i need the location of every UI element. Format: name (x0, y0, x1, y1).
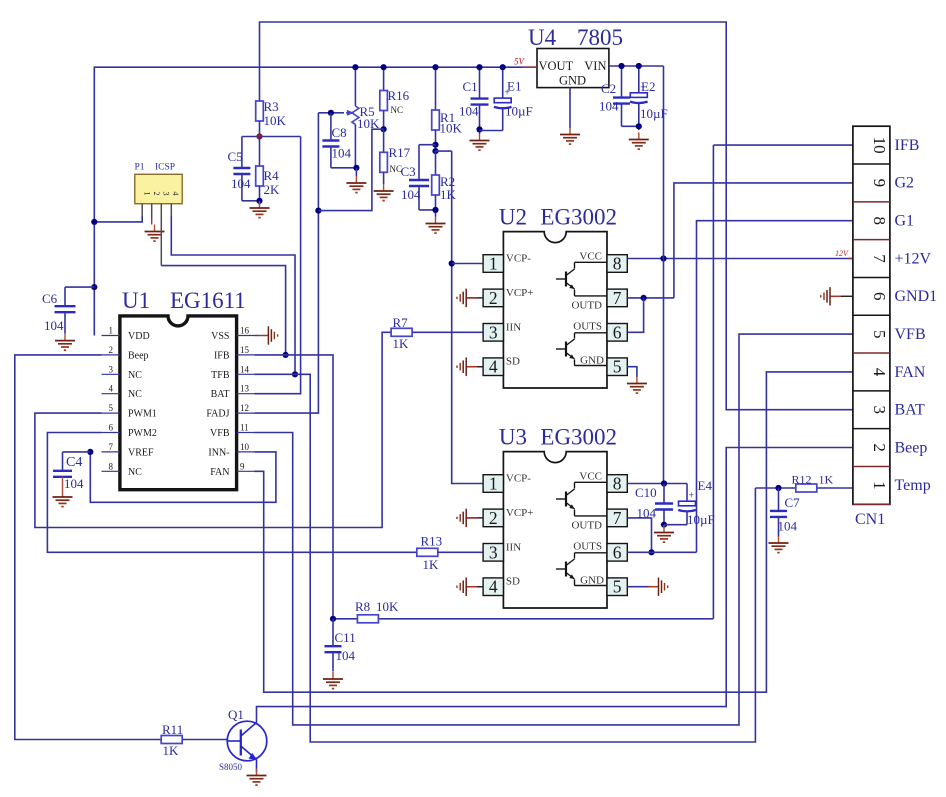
wire VCP- net (449, 151, 484, 483)
svg-text:OUTS: OUTS (573, 321, 602, 333)
capacitor E1 (480, 67, 533, 130)
svg-text:CN1: CN1 (855, 511, 885, 528)
svg-text:C8: C8 (332, 125, 347, 140)
svg-text:Beep: Beep (128, 350, 149, 361)
svg-text:FADJ: FADJ (206, 409, 229, 420)
svg-text:104: 104 (44, 318, 64, 333)
ground C10 (654, 526, 674, 543)
capacitor E2 (630, 63, 668, 130)
svg-text:4: 4 (109, 384, 114, 394)
pin 7 U3 (607, 508, 627, 528)
pin 6 U1 (102, 423, 157, 440)
pin 5 CN1 (870, 330, 889, 339)
wire +12V rail (627, 66, 853, 484)
svg-text:R16: R16 (388, 88, 410, 103)
label Beep (895, 439, 928, 456)
wire U3 OUTD/OUTS tie + G1 (627, 221, 853, 556)
connector CN1 (853, 126, 890, 528)
svg-text:E4: E4 (698, 478, 713, 493)
svg-text:GND: GND (580, 575, 604, 587)
capacitor C8 (322, 110, 359, 176)
svg-text:G2: G2 (895, 175, 915, 192)
svg-text:VCC: VCC (579, 251, 602, 263)
capacitor C5 (228, 137, 260, 201)
svg-text:4: 4 (171, 192, 180, 196)
svg-text:BAT: BAT (211, 389, 230, 400)
svg-text:E2: E2 (641, 79, 655, 94)
pin 2 CN1 (870, 443, 889, 452)
pin 1 U3 (483, 474, 503, 494)
svg-text:10K: 10K (376, 599, 399, 614)
capacitor C2 (599, 63, 639, 126)
node 5V rail joints (352, 64, 506, 70)
voltage regulator U4 7805 (528, 25, 623, 88)
wire 12V red stub (849, 258, 853, 260)
svg-text:+12V: +12V (895, 250, 932, 267)
ground R17 (374, 184, 394, 201)
svg-text:R12: R12 (792, 472, 812, 486)
pin 10 CN1 (870, 137, 889, 154)
svg-text:NC: NC (128, 370, 142, 381)
ground C2/E2 (629, 133, 649, 150)
capacitor C11 (325, 619, 356, 672)
svg-text:10: 10 (240, 442, 250, 452)
svg-text:9: 9 (240, 461, 245, 471)
pin 4 U2 (483, 357, 503, 377)
pin names U2 (506, 251, 604, 368)
svg-text:GND: GND (559, 74, 586, 88)
ground C1/E1 (470, 134, 490, 151)
svg-text:7: 7 (613, 508, 622, 528)
svg-text:+: + (689, 491, 695, 502)
svg-text:7: 7 (109, 442, 114, 452)
svg-text:VCP+: VCP+ (506, 287, 534, 299)
svg-text:5: 5 (870, 330, 889, 339)
wire U2 OUTD/OUTS tie + G2 (627, 183, 853, 332)
pin 3 U2 (483, 322, 503, 342)
wire BAT to pin13 (255, 137, 301, 394)
ground C11 (323, 672, 343, 689)
pin 7 CN1 (870, 254, 889, 263)
label 5V (514, 57, 526, 67)
pin names U3 (506, 471, 604, 588)
svg-text:IFB: IFB (214, 350, 230, 361)
svg-text:2: 2 (489, 288, 498, 308)
svg-text:C1: C1 (463, 79, 478, 94)
svg-text:7: 7 (613, 288, 622, 308)
ground U2 pin2 (457, 289, 483, 307)
svg-text:3: 3 (870, 406, 889, 415)
svg-text:SD: SD (506, 576, 520, 588)
capacitor C1 (459, 67, 489, 133)
svg-text:U4: U4 (528, 25, 557, 50)
resistor R17 (380, 129, 411, 184)
pin 6 CN1 (870, 292, 889, 301)
pin 9 CN1 (870, 179, 889, 188)
svg-text:5: 5 (613, 577, 622, 597)
label GND1 (895, 288, 938, 305)
svg-text:11: 11 (240, 423, 249, 433)
connector P1 ICSP (135, 163, 183, 204)
label G2 (895, 175, 915, 192)
svg-text:1K: 1K (393, 336, 410, 351)
svg-text:6: 6 (613, 322, 622, 342)
svg-text:5V: 5V (514, 57, 526, 67)
svg-text:6: 6 (870, 292, 889, 301)
svg-text:3: 3 (109, 364, 114, 374)
node R16/R17 (381, 126, 387, 132)
pin 5 U3 (607, 577, 627, 597)
pin 11 U1 (210, 423, 254, 440)
svg-text:104: 104 (778, 519, 798, 534)
wire IFB net (713, 145, 853, 619)
pin 3 CN1 (870, 406, 889, 415)
svg-text:C11: C11 (335, 630, 356, 645)
ground U3 pin5 (627, 578, 667, 596)
svg-text:10µF: 10µF (505, 104, 533, 119)
svg-text:1: 1 (870, 481, 889, 490)
ground U3 pin4 (457, 578, 483, 596)
svg-text:G1: G1 (895, 213, 915, 230)
svg-text:10µF: 10µF (687, 512, 715, 527)
wire FAN pin9 net (255, 372, 853, 692)
svg-text:FAN: FAN (895, 364, 926, 381)
svg-text:104: 104 (231, 176, 251, 191)
pin 13 U1 (211, 384, 255, 401)
transistor inside U3 upper (556, 489, 575, 509)
label 12V (835, 249, 849, 258)
svg-text:NC: NC (128, 467, 142, 478)
pin 8 U3 (607, 474, 627, 494)
pin 5 U1 (102, 403, 157, 420)
svg-text:1: 1 (489, 474, 498, 494)
svg-text:VCP-: VCP- (506, 473, 531, 485)
resistor R4 (256, 137, 280, 206)
svg-text:4: 4 (489, 357, 498, 377)
ground R2 (426, 217, 446, 234)
ground U4 (560, 88, 580, 145)
IC U3 EG3002 (499, 425, 617, 608)
wire VIN rail (609, 65, 664, 67)
ground R4 (250, 201, 270, 218)
svg-text:VFB: VFB (210, 428, 230, 439)
svg-text:6: 6 (109, 423, 114, 433)
svg-text:Beep: Beep (895, 439, 928, 456)
svg-text:2: 2 (489, 508, 498, 528)
svg-text:P1: P1 (135, 163, 145, 173)
resistor R16 (380, 67, 410, 129)
svg-text:U2: U2 (499, 205, 527, 230)
svg-text:IIN: IIN (506, 321, 521, 333)
svg-text:VCC: VCC (579, 471, 602, 483)
svg-text:VDD: VDD (128, 331, 150, 342)
pin 2 U1 (102, 345, 149, 362)
wire P1 pin3 to IFB (161, 204, 288, 358)
pin 2 U3 (483, 508, 503, 528)
svg-text:104: 104 (401, 187, 421, 202)
trimmer R5 (346, 67, 380, 168)
pin 4 U3 (483, 577, 503, 597)
pin 1 CN1 (870, 481, 889, 490)
svg-text:R7: R7 (393, 315, 409, 330)
resistor R2 (432, 151, 457, 216)
svg-text:OUTD: OUTD (571, 520, 602, 532)
svg-text:1K: 1K (163, 743, 180, 758)
pin 2 U2 (483, 288, 503, 308)
svg-text:5: 5 (109, 403, 114, 413)
resistor R1 (432, 67, 463, 151)
wire VREF/INN- bridge (87, 449, 276, 503)
IC U1 EG1611 (120, 288, 246, 490)
wire PWM1 net (35, 332, 391, 527)
pin 8 U1 (102, 461, 143, 478)
ground C4 (53, 490, 73, 507)
IC U2 EG3002 (499, 205, 617, 388)
svg-text:R3: R3 (264, 99, 279, 114)
svg-text:7805: 7805 (577, 25, 623, 50)
pin 16 U1 (211, 326, 254, 343)
wire R5 wiper (318, 112, 344, 114)
pin 7 U2 (607, 288, 627, 308)
svg-text:C4: C4 (66, 455, 82, 470)
pin 12 U1 (206, 403, 254, 420)
resistor R11 (161, 722, 228, 758)
ground C6 (55, 334, 75, 351)
svg-text:13: 13 (240, 384, 250, 394)
wire U3 VCC rail (627, 480, 687, 486)
svg-text:R17: R17 (389, 145, 411, 160)
svg-text:1: 1 (143, 192, 152, 196)
node R3/R4 junction (242, 133, 301, 139)
svg-text:FAN: FAN (210, 467, 229, 478)
label Temp (895, 477, 931, 494)
svg-text:6: 6 (613, 542, 622, 562)
wire IFB pin15 net (255, 355, 334, 619)
svg-text:VREF: VREF (128, 447, 154, 458)
transistor inside U3 lower (556, 559, 575, 579)
svg-text:BAT: BAT (895, 402, 925, 419)
svg-text:ICSP: ICSP (155, 163, 175, 173)
svg-text:2: 2 (870, 443, 889, 452)
svg-text:12V: 12V (835, 249, 849, 258)
svg-text:4: 4 (870, 368, 889, 377)
pin 3 U1 (102, 364, 143, 381)
ground U3 pin2 (457, 509, 483, 527)
svg-text:5: 5 (613, 357, 622, 377)
svg-text:C3: C3 (401, 164, 416, 179)
label +12V (895, 250, 932, 267)
svg-text:VSS: VSS (211, 331, 229, 342)
svg-text:EG1611: EG1611 (170, 288, 246, 313)
svg-text:16: 16 (240, 326, 250, 336)
label FAN (895, 364, 926, 381)
wire PWM2 net (47, 433, 416, 553)
svg-text:C5: C5 (228, 149, 243, 164)
svg-text:Temp: Temp (895, 477, 931, 494)
svg-text:1K: 1K (819, 472, 834, 486)
pin 14 U1 (211, 364, 254, 381)
svg-text:10K: 10K (264, 113, 287, 128)
svg-text:IIN: IIN (506, 541, 521, 553)
svg-text:VOUT: VOUT (539, 59, 574, 73)
svg-text:1K: 1K (440, 187, 457, 202)
svg-text:104: 104 (64, 476, 84, 491)
svg-text:8: 8 (613, 254, 622, 274)
resistor R3 (256, 99, 287, 137)
pin 10 U1 (208, 442, 254, 459)
svg-text:1: 1 (109, 326, 114, 336)
svg-text:R11: R11 (162, 722, 183, 737)
svg-text:12: 12 (240, 403, 249, 413)
pin 1 U1 (102, 326, 150, 343)
svg-text:14: 14 (240, 364, 250, 374)
pin 8 U2 (607, 254, 627, 274)
svg-text:10K: 10K (440, 121, 463, 136)
svg-text:GND1: GND1 (895, 288, 938, 305)
resistor R8 (355, 599, 399, 623)
svg-text:9: 9 (870, 179, 889, 188)
svg-text:1K: 1K (423, 557, 440, 572)
svg-text:OUTD: OUTD (571, 300, 602, 312)
pin 6 U2 (607, 322, 627, 342)
pin 5 U2 (607, 357, 627, 377)
svg-text:104: 104 (599, 99, 619, 114)
wire Beep pin2 net (15, 355, 161, 740)
wire P1 pin4 to TFB (171, 204, 298, 378)
svg-text:VIN: VIN (584, 59, 606, 73)
svg-text:C10: C10 (635, 485, 657, 500)
svg-text:C2: C2 (601, 81, 616, 96)
pin 3 U3 (483, 542, 503, 562)
ground GND1 (821, 287, 853, 305)
svg-text:NC: NC (391, 105, 404, 115)
svg-text:IFB: IFB (895, 137, 920, 154)
svg-text:GND: GND (580, 355, 604, 367)
wire BAT top rail (260, 22, 853, 410)
pin 4 CN1 (870, 368, 889, 377)
ground U2 pin5 (627, 367, 647, 393)
svg-text:U3: U3 (499, 425, 527, 450)
ground Q1 (247, 769, 267, 786)
svg-text:VCP+: VCP+ (506, 507, 534, 519)
svg-text:2: 2 (152, 192, 161, 196)
svg-text:104: 104 (459, 104, 479, 119)
svg-text:VFB: VFB (895, 326, 926, 343)
svg-text:VCP-: VCP- (506, 253, 531, 265)
capacitor C6 (42, 284, 97, 334)
svg-text:R8: R8 (355, 599, 370, 614)
svg-text:3: 3 (162, 192, 171, 196)
wire Temp row (755, 485, 853, 491)
wire 5V rail (94, 67, 537, 335)
svg-text:PWM2: PWM2 (128, 428, 157, 439)
capacitor C3 (401, 145, 436, 210)
label BAT (895, 402, 925, 419)
pin 15 U1 (214, 345, 255, 362)
svg-text:4: 4 (489, 577, 498, 597)
wire FADJ trimmer net (255, 113, 384, 413)
svg-text:Q1: Q1 (228, 707, 244, 722)
wire TFB pin14 net (255, 374, 756, 742)
transistor inside U2 upper (556, 269, 575, 289)
svg-text:104: 104 (332, 146, 352, 161)
wire VFB pin11 net (255, 334, 853, 725)
svg-text:8: 8 (613, 474, 622, 494)
capacitor C10 (635, 484, 673, 528)
pin 7 U1 (102, 442, 155, 459)
svg-text:3: 3 (489, 542, 498, 562)
resistor R12 (792, 472, 834, 492)
svg-text:R13: R13 (421, 534, 443, 549)
wire R8 row (330, 616, 714, 622)
label G1 (895, 213, 915, 230)
transistor Q1 S8050 (219, 707, 267, 772)
svg-text:TFB: TFB (211, 370, 230, 381)
svg-text:1: 1 (489, 254, 498, 274)
capacitor C4 (53, 452, 90, 491)
svg-text:10: 10 (870, 137, 889, 154)
ground R5/C8 (346, 176, 366, 193)
svg-text:7: 7 (870, 254, 889, 263)
node R1 bottom (419, 142, 452, 155)
svg-text:EG3002: EG3002 (540, 425, 617, 450)
svg-text:C7: C7 (785, 495, 801, 510)
ground P1 pin2 (145, 204, 165, 241)
pin 8 CN1 (870, 216, 889, 225)
pin 1 U2 (483, 254, 503, 274)
svg-text:R4: R4 (264, 168, 280, 183)
svg-text:EG3002: EG3002 (540, 205, 617, 230)
pin 4 U1 (102, 384, 143, 401)
pin 9 U1 (210, 461, 254, 478)
capacitor E4 (664, 478, 715, 527)
svg-text:8: 8 (870, 216, 889, 225)
svg-text:S8050: S8050 (219, 762, 243, 772)
svg-text:104: 104 (336, 648, 356, 663)
svg-text:2K: 2K (264, 182, 281, 197)
label VFB (895, 326, 926, 343)
svg-text:104: 104 (637, 506, 657, 521)
svg-text:INN-: INN- (208, 447, 229, 458)
svg-text:NC: NC (128, 389, 142, 400)
resistor R13 (417, 534, 483, 573)
svg-text:3: 3 (489, 322, 498, 342)
svg-text:OUTS: OUTS (573, 541, 602, 553)
svg-text:SD: SD (506, 356, 520, 368)
resistor R7 (391, 315, 483, 351)
svg-text:C6: C6 (42, 291, 58, 306)
wire 5V red stub (523, 66, 537, 68)
capacitor C7 (770, 488, 800, 537)
label IFB (895, 137, 920, 154)
ground C7 (769, 536, 789, 553)
transistor inside U2 lower (556, 339, 575, 359)
ground VSS pin16 (255, 326, 278, 344)
pin 6 U3 (607, 542, 627, 562)
ground U2 pin4 (457, 358, 483, 376)
svg-text:E1: E1 (507, 79, 521, 94)
svg-text:PWM1: PWM1 (128, 409, 157, 420)
wire P1 pin1 (91, 204, 142, 225)
svg-text:8: 8 (109, 461, 114, 471)
svg-text:2: 2 (109, 345, 114, 355)
svg-text:U1: U1 (122, 288, 150, 313)
wire Beep collector net (257, 448, 853, 723)
svg-text:15: 15 (240, 345, 250, 355)
